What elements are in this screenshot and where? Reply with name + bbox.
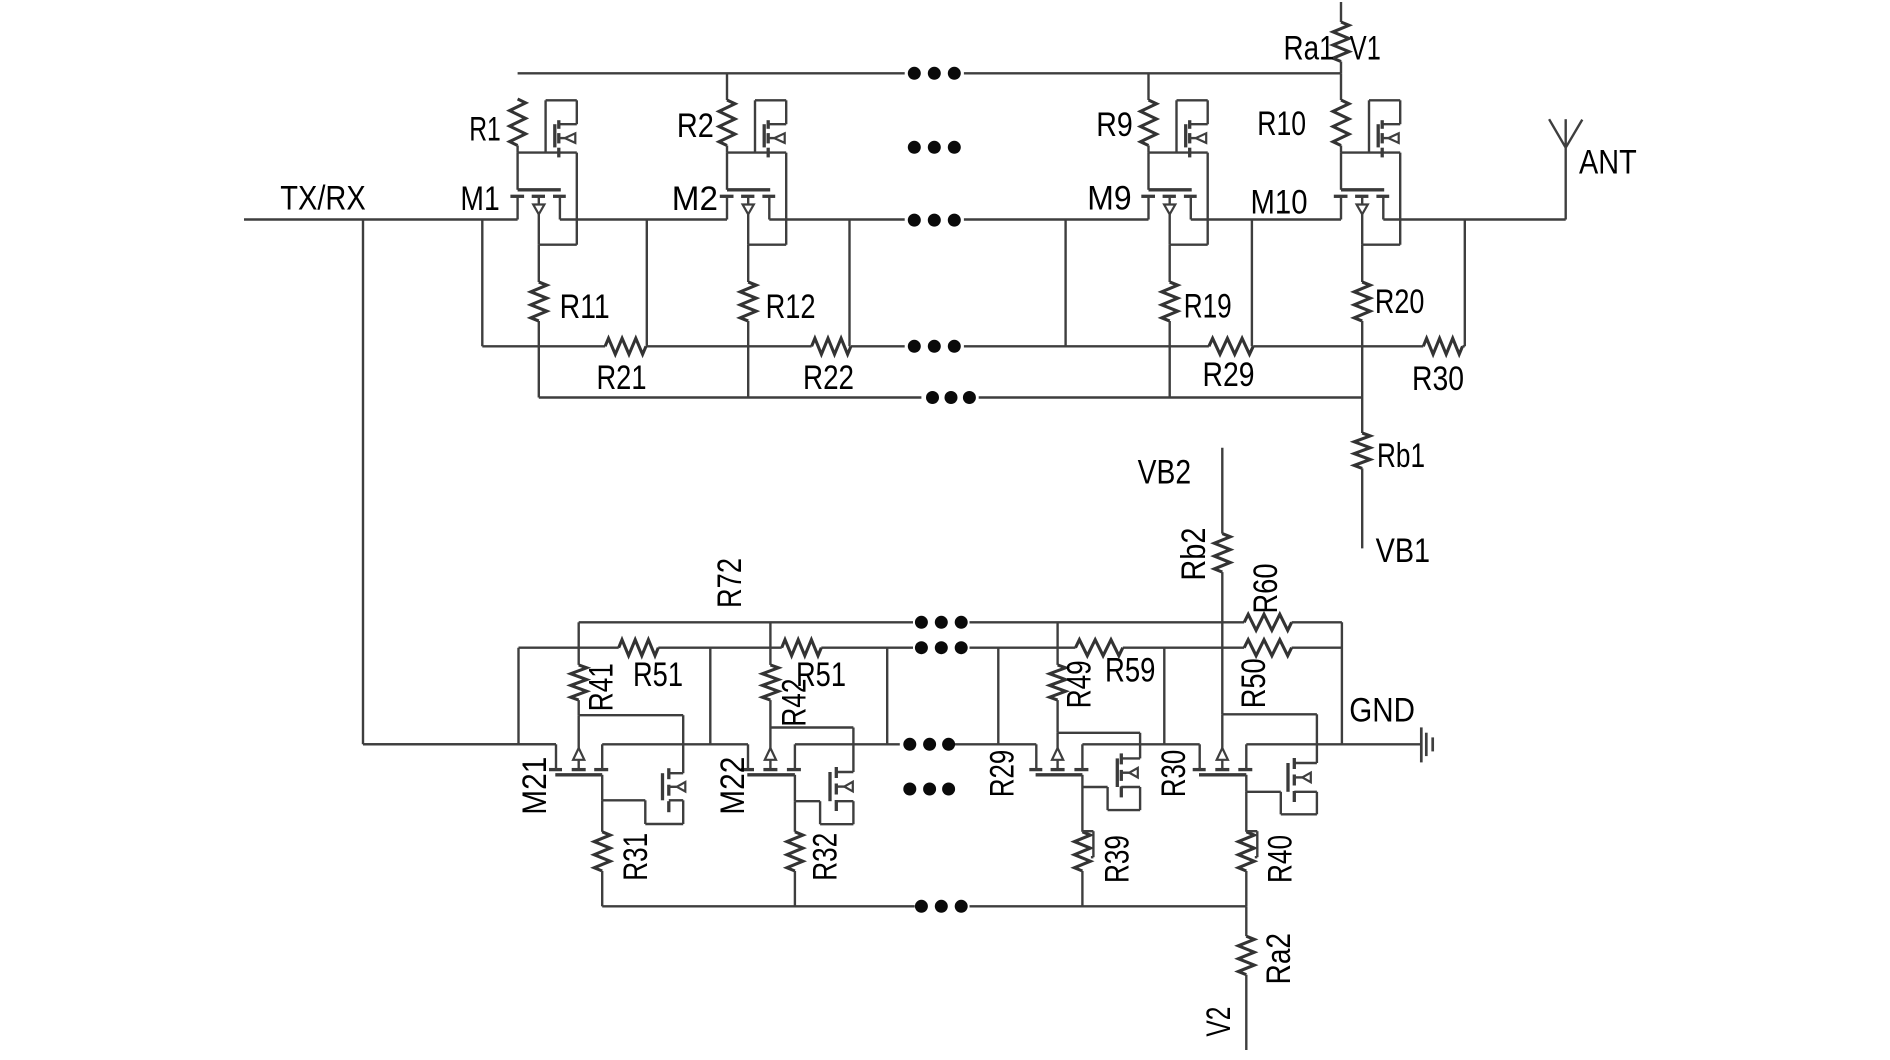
ellipsis dots <box>915 641 968 654</box>
wire <box>709 648 711 745</box>
svg-text:M1: M1 <box>460 180 499 218</box>
svg-text:R60: R60 <box>1247 564 1285 614</box>
label VB1 <box>1376 532 1431 570</box>
wire <box>1082 775 1107 787</box>
svg-text:R39: R39 <box>1099 835 1137 883</box>
resistor R51 <box>619 640 683 694</box>
transistor M1 <box>460 180 565 245</box>
wire VB2 lead <box>1221 448 1223 534</box>
antenna ANT <box>1549 119 1637 219</box>
svg-text:R59: R59 <box>1105 652 1155 690</box>
wire V2 lead <box>1245 975 1247 1050</box>
wire <box>1361 398 1363 434</box>
svg-text:R1: R1 <box>469 110 501 148</box>
wire <box>1245 906 1247 936</box>
resistor R21 <box>597 338 647 397</box>
ellipsis dots <box>903 738 955 751</box>
transistor M9 <box>1087 179 1196 244</box>
bias transistor of M9 <box>1177 100 1208 157</box>
svg-text:R72: R72 <box>711 558 749 608</box>
label VB2 <box>1138 453 1192 491</box>
wire shunt-arm line <box>363 743 1421 745</box>
ellipsis dots <box>908 340 961 353</box>
resistor R9 <box>1096 73 1156 152</box>
svg-text:GND: GND <box>1349 692 1415 730</box>
bulk contact of M21 <box>573 715 584 769</box>
svg-text:R2: R2 <box>677 107 714 145</box>
label V2 <box>1200 1007 1238 1037</box>
svg-text:TX/RX: TX/RX <box>280 180 365 218</box>
svg-text:R20: R20 <box>1375 283 1425 321</box>
transistor M21 <box>516 744 608 814</box>
svg-text:R9: R9 <box>1096 106 1133 144</box>
wire <box>770 728 853 773</box>
ellipsis dots <box>926 391 976 404</box>
svg-text:VB1: VB1 <box>1376 532 1431 570</box>
svg-text:R12: R12 <box>766 288 816 326</box>
wire <box>481 220 483 347</box>
resistor R30 <box>1412 338 1464 398</box>
wire <box>1399 153 1401 245</box>
transistor M22 <box>714 744 801 814</box>
wire <box>1464 220 1466 347</box>
resistor R12 <box>740 245 815 398</box>
wire bulk rail 2 <box>579 621 1244 623</box>
wire <box>727 153 786 190</box>
transistor M2 <box>672 180 775 245</box>
wire V1 lead <box>1340 2 1342 22</box>
wire <box>1221 622 1223 714</box>
bias transistor of R29 <box>1108 753 1141 810</box>
resistor Ra2 <box>1238 933 1298 984</box>
svg-text:R21: R21 <box>597 359 647 397</box>
wire <box>518 153 577 190</box>
svg-text:R29: R29 <box>1203 356 1255 394</box>
resistor R19 <box>1162 245 1232 398</box>
ellipsis dots <box>915 616 968 629</box>
resistor R22 <box>803 338 854 397</box>
resistor R50 <box>1235 640 1292 709</box>
label TX/RX <box>280 180 365 218</box>
wire <box>1163 648 1165 745</box>
wire <box>1058 733 1141 759</box>
resistor R32 <box>787 801 845 906</box>
bias transistor of M22 <box>820 767 853 824</box>
ellipsis dots <box>908 67 961 80</box>
wire shunt line <box>482 345 1465 347</box>
wire <box>602 775 645 801</box>
wire <box>539 243 577 245</box>
transistor M10 <box>1251 183 1390 244</box>
svg-text:R41: R41 <box>582 663 620 711</box>
svg-text:R32: R32 <box>807 833 845 881</box>
svg-text:R10: R10 <box>1257 105 1306 143</box>
svg-text:R29: R29 <box>983 750 1021 797</box>
wire <box>1206 153 1208 245</box>
transistor R30 <box>1155 744 1252 797</box>
wire <box>1362 243 1400 245</box>
wire <box>1246 775 1281 792</box>
resistor R40 <box>1238 792 1299 907</box>
wire shunt line 2 <box>519 647 1342 649</box>
wire <box>795 775 820 801</box>
resistor R20 <box>1354 245 1424 398</box>
wire gate rail 2 <box>602 905 1246 907</box>
wire bulk rail <box>539 396 1362 398</box>
svg-text:R50: R50 <box>1235 658 1273 708</box>
resistor R2 <box>677 73 735 152</box>
wire <box>576 153 578 245</box>
resistor Ra1 <box>1284 22 1350 67</box>
ellipsis dots <box>915 900 968 913</box>
svg-text:R49: R49 <box>1060 660 1098 708</box>
svg-text:M9: M9 <box>1087 179 1131 217</box>
wire VB1 lead <box>1361 468 1363 548</box>
svg-text:R19: R19 <box>1184 288 1232 326</box>
wire <box>785 153 787 245</box>
bulk contact of R29 <box>1052 733 1063 770</box>
svg-text:R22: R22 <box>803 359 854 397</box>
wire <box>1341 153 1400 190</box>
resistor R41 <box>571 622 621 715</box>
svg-text:ANT: ANT <box>1579 144 1637 182</box>
wire <box>517 648 519 745</box>
svg-text:R30: R30 <box>1155 750 1193 797</box>
svg-text:Rb1: Rb1 <box>1377 437 1425 475</box>
wire <box>646 220 648 347</box>
resistor R39 <box>1074 787 1136 906</box>
bulk contact of M22 <box>765 728 776 770</box>
resistor Rb2 <box>1175 528 1230 581</box>
wire <box>1222 714 1317 763</box>
svg-text:R30: R30 <box>1412 360 1464 398</box>
bias transistor of M10 <box>1369 100 1400 157</box>
bulk contact of R30 <box>1217 714 1228 769</box>
wire <box>1340 62 1342 74</box>
svg-text:Ra2: Ra2 <box>1260 933 1298 984</box>
bias transistor of M21 <box>645 768 685 824</box>
wire gate rail <box>518 72 1341 74</box>
resistor R10 <box>1257 73 1349 152</box>
wire <box>997 648 999 745</box>
svg-text:Ra1: Ra1 <box>1284 29 1335 67</box>
svg-text:R31: R31 <box>617 833 655 881</box>
resistor R29 <box>1203 338 1255 394</box>
bias transistor of R30 <box>1281 758 1317 814</box>
svg-text:M22: M22 <box>714 757 752 815</box>
svg-text:R51: R51 <box>633 656 683 694</box>
ellipsis dots <box>908 214 961 227</box>
label V1 <box>1350 29 1381 67</box>
svg-text:R40: R40 <box>1262 835 1300 883</box>
svg-text:R42: R42 <box>776 679 814 727</box>
ellipsis dots <box>908 141 961 154</box>
resistor R49 <box>1050 622 1099 733</box>
wire <box>579 715 684 773</box>
svg-text:M2: M2 <box>672 180 718 218</box>
svg-text:V1: V1 <box>1350 29 1381 67</box>
ellipsis dots <box>903 783 955 796</box>
resistor R59 <box>1076 640 1156 690</box>
bias transistor of M2 <box>755 100 786 157</box>
wire <box>748 243 786 245</box>
resistor R11 <box>531 245 610 398</box>
wire <box>363 220 556 745</box>
wire <box>886 648 888 745</box>
svg-text:M10: M10 <box>1251 183 1308 221</box>
wire <box>1149 153 1208 190</box>
label R72 <box>711 558 749 608</box>
wire <box>1251 220 1253 347</box>
wire <box>1221 572 1223 622</box>
wire <box>1170 243 1208 245</box>
wire <box>848 220 850 347</box>
wire <box>1064 220 1066 347</box>
resistor R1 <box>469 99 525 153</box>
wire <box>1292 622 1342 744</box>
svg-text:VB2: VB2 <box>1138 453 1192 491</box>
resistor R31 <box>594 800 655 906</box>
resistor Rb1 <box>1354 433 1425 475</box>
svg-text:R11: R11 <box>560 288 610 326</box>
wire TX/RX signal line <box>244 218 1566 220</box>
resistor R42 <box>762 622 813 727</box>
ground GND <box>1349 692 1432 763</box>
svg-text:V2: V2 <box>1200 1007 1238 1037</box>
svg-text:M21: M21 <box>516 757 554 815</box>
svg-text:Rb2: Rb2 <box>1175 528 1213 581</box>
resistor R51b <box>782 640 846 694</box>
transistor R29 <box>983 744 1088 797</box>
resistor R60 <box>1244 564 1291 631</box>
bias transistor of M1 <box>546 100 577 157</box>
